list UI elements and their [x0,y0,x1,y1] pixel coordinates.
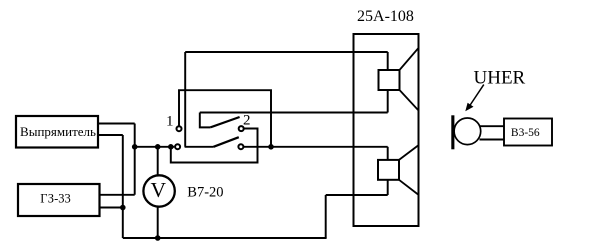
junction dot voltmeter bottom [155,235,161,241]
switch S1 top pole pivot and arm [200,113,211,128]
wire microphone top lead [480,125,505,127]
junction dot generator bottom wire [120,205,126,211]
wire second line to upper speaker bottom terminal [200,112,388,114]
wire ГЗ-33 bottom output [99,207,123,209]
wire voltmeter bottom lead [157,206,159,238]
speaker LS1 horn [400,48,419,111]
box G1 ГЗ-33 (audio generator) [18,184,100,216]
wire stub lower speaker top [387,147,389,160]
loudspeaker box 25А-108 [354,34,419,226]
wire ГЗ-33 top output [99,194,135,196]
wire vertical x=122.8 down to bottom bus [122,135,124,238]
svg-text:UHER: UHER [474,68,526,89]
wire stub upper speaker top [387,52,389,70]
wire middle bus y=146.8 [135,146,175,148]
junction dot contact1 line joins right bus [268,144,274,150]
wire bottom bus [123,237,327,239]
svg-text:1: 1 [166,113,174,129]
svg-text:2: 2 [243,113,251,129]
switch contact circle 1 (top-left) [177,126,182,131]
box В3-56 (millivoltmeter) [504,119,552,146]
microphone BM1 circle [454,118,481,145]
svg-text:В7-20: В7-20 [187,185,223,201]
wire switch bottom pole arm line [185,146,214,148]
wire contact 1 riser and over to bus junction [179,90,271,147]
wire stub lower speaker bottom [387,180,389,195]
voltmeter PV1 circle [143,175,174,206]
speaker LS2 horn [399,145,419,195]
speaker LS1 (top) driver square [379,70,400,90]
wire stub upper speaker bottom [387,90,389,113]
wire to lower speaker bottom terminal [326,194,388,196]
junction dot on bus at riser x=134.7 [132,144,138,150]
wire vertical riser x=134.7 (rectifier/generator junction to bus) [134,124,136,195]
box U1 Выпрямитель (rectifier) [16,116,98,148]
arrow pointing to microphone [465,85,484,112]
wire voltmeter top lead [157,147,159,176]
speaker LS2 (bottom) driver square [378,160,399,180]
svg-text:В3-56: В3-56 [511,127,540,139]
wire rectifier bottom output [98,134,123,136]
wire microphone bottom lead [480,139,505,141]
switch contact circle bottom-right [238,144,243,149]
svg-text:Выпрямитель: Выпрямитель [20,124,96,139]
switch contact circle bottom-left [175,144,180,149]
junction dot voltmeter top [155,144,161,150]
switch S1 bottom blade [214,137,239,147]
wire rectifier top output to vertical riser [98,123,135,125]
wire right riser to lower speaker [325,195,327,238]
wire contact 2 right side U-loop [171,129,258,163]
switch S1 top blade [210,117,239,127]
wire bottom-right contact to lower speaker top terminal [244,146,388,148]
wire vertical x=185.2 to top line [184,52,186,147]
svg-text:25А-108: 25А-108 [357,8,414,25]
wire top line to upper speaker top terminal [185,51,388,53]
microphone baffle bar [451,115,454,149]
junction dot U-loop left [168,144,174,150]
svg-text:ГЗ-33: ГЗ-33 [40,191,70,205]
switch contact circle 2 (top-right) [239,126,244,131]
svg-text:V: V [151,178,167,202]
